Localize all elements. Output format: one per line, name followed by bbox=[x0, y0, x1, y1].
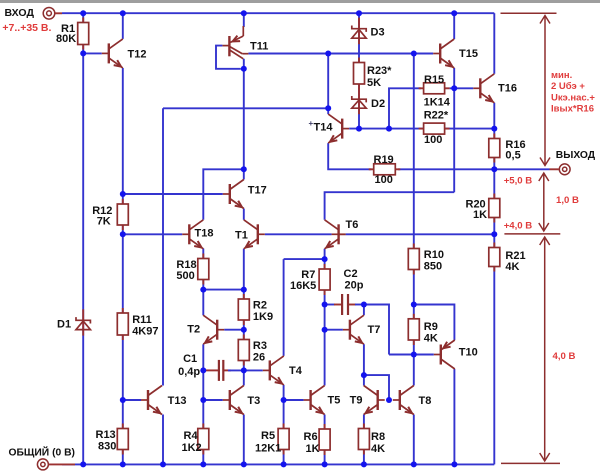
wire R10 R9 column bbox=[413, 54, 415, 386]
resistor R6 bbox=[319, 424, 330, 455]
svg-text:4,0 В: 4,0 В bbox=[553, 351, 576, 362]
svg-text:4K: 4K bbox=[505, 261, 519, 273]
svg-text:80K: 80K bbox=[56, 33, 76, 45]
svg-text:T18: T18 bbox=[195, 228, 214, 240]
label R18 value bbox=[176, 270, 194, 282]
svg-text:4K: 4K bbox=[371, 443, 385, 455]
label R11 bbox=[132, 314, 152, 326]
transistor T8 bbox=[393, 386, 414, 415]
wire T4 emitter column bbox=[283, 385, 285, 465]
wire top supply rail bbox=[62, 12, 494, 14]
wire D3 R23 D2 column bbox=[358, 13, 360, 128]
node T5 base bbox=[281, 397, 287, 403]
label T16 bbox=[498, 82, 517, 94]
svg-text:ОБЩИЙ (0 В): ОБЩИЙ (0 В) bbox=[9, 446, 75, 459]
label R6 bbox=[304, 431, 318, 443]
transistor T13 bbox=[141, 386, 162, 415]
transistor T5 bbox=[304, 386, 325, 415]
resistor R12 bbox=[117, 199, 128, 230]
resistor R5 bbox=[278, 424, 289, 455]
wire T13 corner row to T14 node bbox=[163, 107, 328, 109]
wire T13 emitter drop bbox=[162, 415, 164, 465]
label R5 value bbox=[255, 443, 281, 455]
wire R10 bottom to T10 emitter bbox=[414, 305, 455, 341]
label R7 value bbox=[290, 280, 316, 292]
label 1,0 В bbox=[556, 195, 579, 206]
label R11 value bbox=[132, 326, 158, 338]
svg-text:T8: T8 bbox=[419, 395, 432, 407]
svg-text:T10: T10 bbox=[459, 347, 478, 359]
terminal ОБЩИЙ bbox=[37, 459, 48, 470]
svg-text:500: 500 bbox=[176, 270, 194, 282]
label ОБЩИЙ (0 В) bbox=[9, 446, 75, 459]
label R8 value bbox=[371, 443, 385, 455]
svg-text:T5: T5 bbox=[328, 394, 341, 406]
wire ВХОД lead bbox=[55, 12, 62, 14]
svg-text:Iвых*R16: Iвых*R16 bbox=[551, 103, 594, 114]
terminal ВЫХОД bbox=[559, 164, 570, 175]
label T11 bbox=[250, 41, 268, 53]
node rail R4 bbox=[200, 461, 206, 467]
node T3 base bbox=[200, 397, 206, 403]
wire T5 emitter drop bbox=[324, 415, 326, 465]
svg-text:D1: D1 bbox=[57, 319, 71, 331]
resistor R23 bbox=[354, 58, 365, 90]
svg-text:T16: T16 bbox=[498, 82, 517, 94]
transistor T16 bbox=[473, 74, 494, 103]
node rail T15 bbox=[451, 10, 457, 16]
node C1 left bbox=[200, 367, 206, 373]
svg-text:830: 830 bbox=[98, 441, 116, 453]
svg-text:R4: R4 bbox=[184, 430, 199, 442]
svg-text:12K1: 12K1 bbox=[255, 443, 281, 455]
wire T6 collector row bbox=[325, 192, 455, 220]
resistor R19 bbox=[369, 164, 401, 175]
transistor T3 bbox=[223, 386, 244, 415]
transistor T6 bbox=[325, 220, 346, 249]
resistor R3 bbox=[238, 335, 249, 366]
resistor R15 bbox=[419, 83, 450, 94]
transistor T17 bbox=[223, 180, 244, 209]
node T9 collector bbox=[361, 372, 367, 378]
dimension ref line bottom bbox=[501, 462, 560, 464]
svg-text:R8: R8 bbox=[371, 431, 385, 443]
node T13 base bbox=[120, 397, 126, 403]
svg-text:5K: 5K bbox=[367, 77, 381, 89]
label T5 bbox=[328, 394, 341, 406]
label R19 value bbox=[375, 174, 393, 186]
wire T7 collector riser bbox=[363, 305, 365, 316]
node R12 bottom bbox=[120, 231, 126, 237]
wire +4V base bus bbox=[265, 233, 332, 235]
label R21 value bbox=[505, 261, 519, 273]
svg-text:T4: T4 bbox=[289, 365, 303, 377]
wire T11 collector bus bbox=[248, 53, 433, 55]
svg-text:T11: T11 bbox=[250, 41, 268, 53]
label T2 bbox=[187, 324, 200, 336]
svg-text:1K9: 1K9 bbox=[253, 311, 273, 323]
label R2 bbox=[253, 300, 267, 312]
svg-text:T3: T3 bbox=[247, 395, 260, 407]
dimension arrow 4.0V bbox=[540, 237, 550, 461]
wire +4V base bus right bbox=[346, 233, 495, 235]
resistor R9 bbox=[408, 314, 419, 345]
node T6 emitter R7 bbox=[322, 256, 328, 262]
label T14 bbox=[314, 122, 334, 134]
label C2 bbox=[344, 268, 358, 280]
svg-text:+7..+35 В.: +7..+35 В. bbox=[2, 22, 51, 34]
node T17 collector bbox=[241, 166, 247, 172]
svg-text:R23*: R23* bbox=[367, 65, 392, 77]
label R7 bbox=[301, 269, 315, 281]
diode D3 bbox=[352, 18, 366, 45]
node rail D3 bbox=[356, 10, 362, 16]
capacitor C1 bbox=[219, 360, 223, 381]
resistor R21 bbox=[489, 243, 500, 272]
svg-text:T9: T9 bbox=[350, 394, 363, 406]
node T7 base bbox=[322, 327, 328, 333]
svg-text:+4,0 В: +4,0 В bbox=[504, 220, 533, 231]
label R20 bbox=[466, 199, 486, 211]
label R22 value bbox=[424, 134, 442, 146]
resistor R4 bbox=[198, 424, 209, 455]
label R15 bbox=[424, 74, 444, 86]
terminal ВХОД bbox=[43, 8, 55, 20]
svg-text:R13: R13 bbox=[96, 429, 116, 441]
resistor R18 bbox=[198, 254, 209, 285]
wire T15 collector drop bbox=[453, 13, 455, 39]
node output R16 bbox=[491, 166, 497, 172]
wire T12 emitter column bbox=[122, 68, 124, 464]
label R2 value bbox=[253, 311, 273, 323]
label R10 value bbox=[424, 261, 442, 273]
node T1 emitter R2 bbox=[241, 287, 247, 293]
resistor R20 bbox=[489, 194, 500, 223]
label R21 bbox=[505, 250, 525, 262]
transistor T12 bbox=[102, 39, 123, 68]
label T12 bbox=[128, 49, 147, 61]
svg-text:D3: D3 bbox=[371, 27, 385, 39]
svg-text:C1: C1 bbox=[183, 353, 197, 365]
label R3 bbox=[253, 340, 267, 352]
node R12 top bbox=[120, 191, 126, 197]
label R9 value bbox=[424, 333, 438, 345]
label R1 value bbox=[56, 33, 76, 45]
resistor R1 bbox=[78, 18, 89, 50]
wire T10 base row bbox=[414, 354, 434, 356]
label R19 bbox=[374, 154, 394, 166]
svg-text:T14: T14 bbox=[314, 122, 334, 134]
transistor T14 bbox=[328, 114, 349, 143]
transistor T4 bbox=[263, 356, 284, 385]
wire T14 collector drop from bus bbox=[327, 54, 329, 115]
svg-text:R9: R9 bbox=[424, 321, 438, 333]
wire right column drop to rail bbox=[493, 103, 495, 465]
svg-text:R6: R6 bbox=[304, 431, 318, 443]
label R4 value bbox=[182, 442, 202, 454]
svg-text:T17: T17 bbox=[248, 185, 267, 197]
node rail T13 bbox=[160, 461, 166, 467]
resistor R10 bbox=[408, 244, 419, 275]
node C2 left bbox=[322, 302, 328, 308]
svg-text:T6: T6 bbox=[346, 219, 359, 231]
node T14 corner bbox=[325, 105, 331, 111]
top gray strip bbox=[0, 0, 600, 3]
label R12 value bbox=[97, 216, 111, 228]
svg-text:100: 100 bbox=[375, 174, 393, 186]
label T6 bbox=[346, 219, 359, 231]
svg-text:R15: R15 bbox=[424, 74, 444, 86]
label T9 bbox=[350, 394, 363, 406]
node T9 T8 base bbox=[386, 397, 392, 403]
label C1 value bbox=[178, 366, 200, 378]
wire top rail right drop to T16 collector bbox=[493, 13, 495, 74]
svg-text:R10: R10 bbox=[424, 249, 444, 261]
label Uкэ.нас.+ bbox=[551, 92, 595, 103]
node R20 R21 bbox=[491, 231, 497, 237]
node T11 base collector bbox=[241, 66, 247, 72]
capacitor C2 bbox=[342, 294, 348, 315]
label R6 value bbox=[306, 443, 320, 455]
svg-text:26: 26 bbox=[253, 351, 265, 363]
wire T12 collector drop bbox=[122, 13, 124, 39]
svg-text:0,4p: 0,4p bbox=[178, 366, 200, 378]
wire T7 base row bbox=[325, 329, 343, 331]
wire T3 emitter column bbox=[243, 415, 245, 465]
svg-text:T12: T12 bbox=[128, 49, 147, 61]
label +4,0 В bbox=[504, 220, 533, 231]
svg-text:R2: R2 bbox=[253, 300, 267, 312]
svg-text:7K: 7K bbox=[97, 216, 111, 228]
svg-text:4K: 4K bbox=[424, 333, 438, 345]
dimension arrow 1.0V bbox=[539, 173, 549, 231]
wire T8 emitter drop bbox=[413, 415, 415, 465]
label T4 bbox=[289, 365, 303, 377]
label 2 Uбэ + bbox=[551, 81, 585, 92]
node D2 bus bbox=[356, 126, 362, 132]
wire C2 right lead bbox=[348, 304, 356, 306]
svg-text:T1: T1 bbox=[235, 230, 248, 242]
wire T9 collector row to bases bbox=[364, 375, 389, 400]
wire T13 base row bbox=[123, 399, 141, 401]
wire output row bbox=[398, 168, 550, 170]
node rail T10 bbox=[451, 461, 457, 467]
wire T5 base row bbox=[284, 399, 304, 401]
label R5 bbox=[261, 430, 275, 442]
wire T3 base row bbox=[203, 399, 223, 401]
label T15 bbox=[459, 48, 478, 60]
node R18 bottom bbox=[200, 287, 206, 293]
node rail R8 bbox=[361, 461, 367, 467]
node R15 drop bus bbox=[386, 126, 392, 132]
node T16 base bbox=[451, 85, 457, 91]
wire C2 corner row to R9 node bbox=[389, 354, 414, 356]
svg-text:R5: R5 bbox=[261, 430, 275, 442]
transistor T11 bbox=[216, 26, 248, 69]
svg-text:R21: R21 bbox=[505, 250, 525, 262]
wire bottom ground rail bbox=[62, 463, 494, 465]
node rail T11 bbox=[241, 10, 247, 16]
wire R1 bottom to T12 base bbox=[83, 52, 102, 54]
resistor R7 bbox=[319, 264, 330, 295]
label T1 bbox=[235, 230, 248, 242]
svg-text:16K5: 16K5 bbox=[290, 280, 316, 292]
node R9 bottom T10 base bbox=[411, 352, 417, 358]
wire C2 left lead bbox=[334, 304, 342, 306]
svg-text:1K: 1K bbox=[473, 209, 487, 221]
wire C2 node to corner bbox=[364, 305, 389, 355]
wire T17 base row bbox=[123, 193, 223, 195]
svg-text:2 Uбэ +: 2 Uбэ + bbox=[551, 81, 585, 92]
wire T10 collector drop bbox=[453, 369, 455, 464]
svg-text:R22*: R22* bbox=[424, 110, 449, 122]
label C2 value bbox=[345, 280, 364, 292]
wire T7 emitter to T9 collector bbox=[363, 344, 365, 385]
node R1 T12 base bbox=[80, 50, 86, 56]
label D3 bbox=[371, 27, 385, 39]
dimension ref line +4V bbox=[504, 233, 560, 235]
transistor T15 bbox=[433, 39, 454, 68]
label T7 bbox=[368, 324, 381, 336]
svg-text:мин.: мин. bbox=[551, 70, 572, 81]
label T10 bbox=[459, 347, 478, 359]
label C1 bbox=[183, 353, 197, 365]
svg-text:1K: 1K bbox=[306, 443, 320, 455]
wire C1 left lead bbox=[206, 369, 219, 371]
svg-text:100: 100 bbox=[424, 134, 442, 146]
node rail T8 bbox=[411, 461, 417, 467]
label R16 bbox=[505, 139, 525, 151]
node R10 R9 bbox=[411, 302, 417, 308]
svg-text:0,5: 0,5 bbox=[505, 150, 520, 162]
wire T17 emitter to T1 collector bbox=[243, 209, 245, 220]
svg-text:R18: R18 bbox=[176, 259, 196, 271]
label R13 bbox=[96, 429, 116, 441]
label T3 bbox=[247, 395, 260, 407]
wire ВЫХОД lead bbox=[550, 168, 559, 170]
wire T14 emitter to output corner bbox=[328, 143, 371, 169]
label T8 bbox=[419, 395, 432, 407]
label R8 bbox=[371, 431, 385, 443]
svg-text:+5,0 В: +5,0 В bbox=[504, 176, 533, 187]
node rail T3 bbox=[241, 461, 247, 467]
wire R15 left corner bbox=[389, 88, 421, 128]
label +5,0 В bbox=[504, 176, 533, 187]
wire T9 emitter drop bbox=[363, 415, 365, 465]
svg-text:ВЫХОД: ВЫХОД bbox=[556, 150, 596, 161]
node rail T12 bbox=[120, 10, 126, 16]
label +7..+35 В bbox=[2, 22, 51, 34]
svg-text:Uкэ.нас.+: Uкэ.нас.+ bbox=[551, 92, 595, 103]
label ВХОД bbox=[5, 7, 35, 19]
label D1 bbox=[57, 319, 71, 331]
label R10 bbox=[424, 249, 444, 261]
wire T15 emitter to T16 base node bbox=[453, 68, 455, 192]
wire T18 base row bbox=[123, 233, 183, 235]
label T18 bbox=[195, 228, 214, 240]
node rail D1 bbox=[80, 461, 86, 467]
label R20 value bbox=[473, 209, 487, 221]
svg-text:T2: T2 bbox=[187, 324, 200, 336]
diode D2 bbox=[352, 88, 366, 114]
diode D1 bbox=[76, 309, 90, 335]
svg-text:T13: T13 bbox=[168, 395, 187, 407]
transistor T7 bbox=[343, 315, 364, 344]
wire left rail ВХОД column bbox=[82, 13, 84, 464]
svg-text:D2: D2 bbox=[371, 98, 385, 110]
wire T1 emitter to R18 row bbox=[243, 249, 245, 386]
node bus T14 collector bbox=[325, 51, 331, 57]
node R22 T16 emitter bbox=[491, 126, 497, 132]
wire R18 T2 column bbox=[202, 249, 204, 316]
plus mark T14 bbox=[309, 119, 314, 128]
node bus R10 bbox=[411, 51, 417, 57]
wire T13 collector riser bbox=[162, 108, 164, 385]
wire C1 row right bbox=[228, 369, 263, 371]
svg-text:1K2: 1K2 bbox=[182, 442, 202, 454]
svg-text:T7: T7 bbox=[368, 324, 381, 336]
wire C1 right lead bbox=[223, 369, 231, 371]
svg-text:1K14: 1K14 bbox=[424, 96, 451, 108]
node rail R13 bbox=[120, 461, 126, 467]
label R9 bbox=[424, 321, 438, 333]
transistor T18 bbox=[182, 220, 203, 249]
transistor T9 bbox=[364, 386, 385, 415]
wire T6 base through bbox=[332, 233, 346, 235]
label R16 value bbox=[505, 150, 520, 162]
wire T14 base bus bbox=[349, 128, 494, 130]
label R3 value bbox=[253, 351, 265, 363]
svg-text:1,0 В: 1,0 В bbox=[556, 195, 579, 206]
label D2 bbox=[371, 98, 385, 110]
resistor R11 bbox=[117, 308, 128, 340]
wire T2 base row bbox=[224, 329, 244, 331]
wire R18 bottom row bbox=[203, 289, 244, 291]
label ВЫХОД bbox=[556, 150, 596, 161]
wire T6 emitter row bbox=[284, 258, 325, 260]
resistor R2 bbox=[238, 294, 249, 325]
label R23 bbox=[367, 65, 392, 77]
label R4 bbox=[184, 430, 199, 442]
wire ОБЩИЙ lead bbox=[48, 463, 75, 465]
svg-text:C2: C2 bbox=[344, 268, 358, 280]
svg-text:4K97: 4K97 bbox=[132, 326, 158, 338]
wire C2 right to T7 collector bbox=[355, 304, 364, 306]
wire T2 emitter column bbox=[202, 344, 204, 464]
label R22 bbox=[424, 110, 449, 122]
transistor T10 bbox=[434, 340, 455, 369]
svg-text:20p: 20p bbox=[345, 280, 364, 292]
resistor R8 bbox=[358, 424, 369, 455]
svg-text:R11: R11 bbox=[132, 314, 152, 326]
label T13 bbox=[168, 395, 187, 407]
label R23 value bbox=[367, 77, 381, 89]
svg-text:ВХОД: ВХОД bbox=[5, 7, 35, 19]
svg-text:R3: R3 bbox=[253, 340, 267, 352]
transistor T2 bbox=[203, 315, 224, 344]
svg-text:T15: T15 bbox=[459, 48, 478, 60]
wire T11 emitter from rail bbox=[243, 13, 245, 27]
wire T17 collector link to T18 bbox=[203, 169, 244, 220]
label Iвых*R16 bbox=[551, 103, 594, 114]
node T2 base R2 R3 bbox=[241, 327, 247, 333]
wire output R19 left bbox=[370, 168, 372, 170]
wire T4 collector riser bbox=[283, 259, 285, 356]
wire T11 node column to T17 bbox=[243, 59, 245, 180]
label R13 value bbox=[98, 441, 116, 453]
label R1 bbox=[61, 23, 75, 35]
label R18 bbox=[176, 259, 196, 271]
